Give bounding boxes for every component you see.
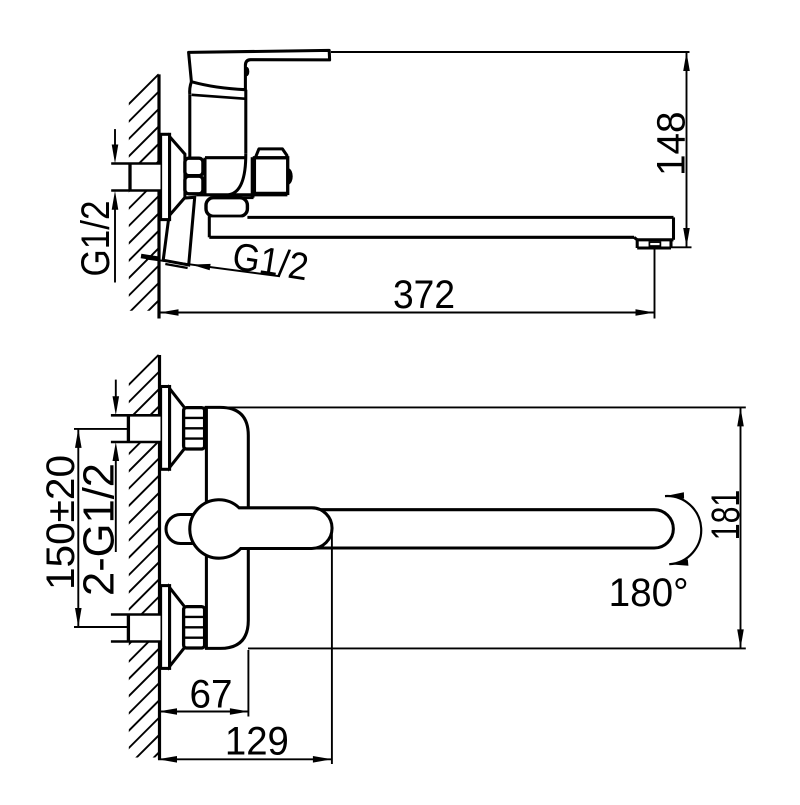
valve body (side view)	[205, 153, 253, 196]
dimension 2-G1/2 arrow top	[113, 380, 120, 416]
extension line bottom (148)	[671, 246, 692, 248]
extension line 129	[331, 530, 333, 764]
aerator	[649, 242, 660, 246]
extension line lower pipe centre (150±20)	[74, 626, 130, 628]
svg-text:67: 67	[190, 673, 233, 717]
wall pipe stub lower (plan view)	[111, 615, 161, 642]
extension line body bottom (181)	[248, 647, 746, 649]
shower outlet tube (side view)	[163, 197, 195, 268]
lever handle (side view)	[189, 50, 330, 89]
wall line (side view)	[157, 74, 160, 318]
faucet body (plan view)	[206, 407, 248, 648]
extension line 67	[247, 650, 249, 717]
diverter housing cap (side view)	[255, 149, 287, 158]
handle lever (plan view)	[190, 500, 332, 558]
svg-text:2-G1/2: 2-G1/2	[75, 463, 124, 596]
svg-text:181: 181	[704, 490, 748, 541]
diverter housing (side view)	[254, 158, 287, 194]
rotation arc 180°	[665, 496, 701, 564]
extension line top (148)	[331, 51, 690, 53]
spout ledge line	[240, 197, 254, 200]
leader line G1/2 (shower outlet)	[146, 259, 280, 277]
spout junction dark line	[251, 157, 255, 198]
escutcheon flange plate upper (plan view)	[161, 387, 170, 470]
extension line upper pipe centre (150±20)	[74, 428, 128, 430]
leader arrowhead	[191, 264, 210, 270]
svg-text:180°: 180°	[609, 571, 689, 615]
wall line (plan view)	[158, 355, 161, 759]
dimension line 372	[160, 309, 655, 316]
wall pipe stub G1/2 (side view)	[111, 164, 160, 191]
dimension G1/2 arrow top	[112, 129, 119, 163]
eccentric hex nut (side view)	[185, 158, 203, 194]
handle lever tip (plan view)	[166, 515, 206, 544]
valve body bottom edge	[197, 193, 288, 196]
escutcheon flange plate lower (plan view)	[161, 586, 170, 669]
leader tick at wall	[141, 256, 160, 259]
dimension line 148	[683, 52, 690, 247]
dimension G1/2 pipe extension lines (side view)	[111, 164, 130, 191]
dimension 2-G1/2 arrow bottom	[113, 442, 120, 552]
dimension line 67	[158, 708, 249, 715]
dimension G1/2 arrow bottom	[112, 191, 119, 283]
arc arrowhead bottom	[669, 559, 688, 565]
escutcheon cone (side view)	[170, 137, 185, 216]
spout (side view)	[209, 216, 673, 248]
arc arrowhead top	[665, 492, 684, 498]
dimension line 150±20	[75, 429, 82, 627]
extension line right (372)	[654, 248, 656, 319]
escutcheon cone lower (plan view)	[170, 588, 185, 667]
escutcheon flange plate (side view)	[161, 134, 170, 219]
dimension line 129	[158, 756, 332, 763]
faucet body column (side view)	[190, 82, 247, 158]
handle set screw	[245, 67, 250, 76]
hex nut upper (plan view)	[184, 408, 205, 449]
wall pipe stub upper (plan view)	[111, 415, 161, 442]
hex nut lower (plan view)	[184, 607, 205, 648]
svg-text:148: 148	[650, 112, 694, 177]
spout (plan view)	[250, 510, 673, 548]
svg-text:129: 129	[225, 720, 289, 764]
svg-text:G1/2: G1/2	[74, 201, 118, 277]
svg-text:372: 372	[393, 273, 455, 317]
extension line body top (181)	[204, 406, 746, 408]
dimension line 181	[737, 407, 744, 648]
spout connector nut (side view)	[206, 198, 247, 217]
escutcheon cone upper (plan view)	[170, 389, 185, 468]
diverter knob	[288, 170, 291, 183]
